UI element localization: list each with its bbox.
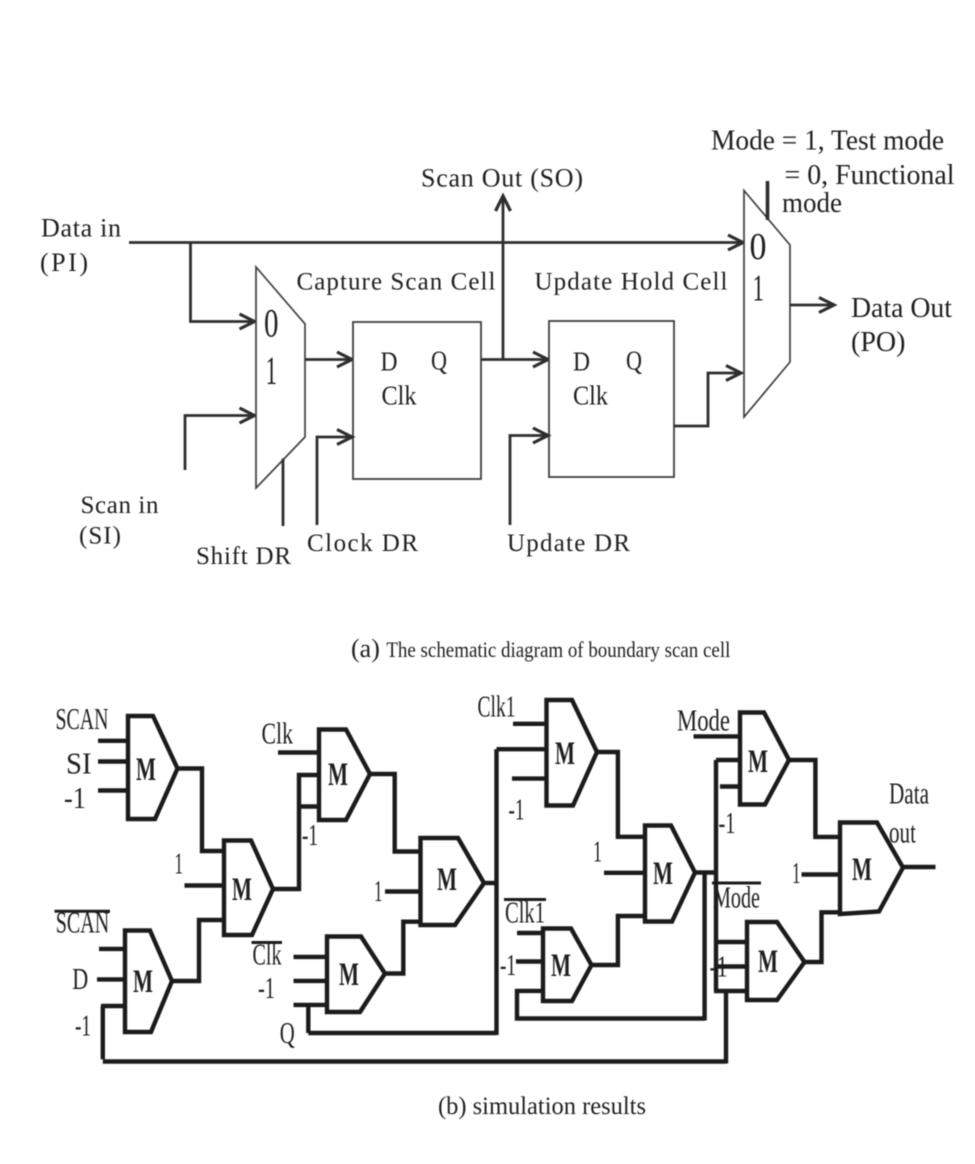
wire junction vertical M10in2 to M11in3 [714, 760, 718, 991]
svg-text:Mode: Mode [677, 703, 730, 738]
wire M6 output to M5 input3 [383, 922, 422, 974]
wire M7 input3 -1 stub [512, 776, 548, 780]
svg-text:0: 0 [264, 301, 279, 346]
wire M8 output to junction vertical [693, 870, 716, 874]
wire M11 input2 -1 stub [714, 964, 749, 968]
svg-text:Update Hold Cell: Update Hold Cell [535, 269, 728, 296]
wire Update DR elbow into FF2 [510, 436, 547, 526]
wire M3 input2 stub [185, 883, 227, 887]
svg-text:Clk1: Clk1 [478, 689, 516, 724]
wire M4 output to M5 input1 [368, 774, 422, 852]
wire M12 output Data out [901, 865, 936, 869]
label "Clk" overline (M6) [252, 941, 283, 944]
wire Scan Out vertical from Q node [502, 197, 505, 360]
wire M9 input2 -1 stub [516, 959, 545, 963]
wire Clock DR elbow into FF1 [317, 437, 351, 525]
svg-text:Mode: Mode [713, 880, 760, 915]
wire M10 output to M12 input1 [787, 760, 842, 837]
svg-text:-1: -1 [258, 970, 275, 1005]
svg-text:Clk1: Clk1 [505, 895, 545, 930]
wire M10 input3 -1 stub [720, 784, 742, 788]
mux M6 [327, 937, 385, 1013]
svg-text:D: D [381, 347, 398, 377]
svg-text:M: M [232, 872, 252, 908]
mux M12 [840, 823, 903, 915]
wire M11 output to M12 input3 [803, 912, 843, 962]
wire M4 input1 Clk stub [278, 750, 321, 754]
wire mux B output to Data Out [790, 304, 833, 307]
wire mux A output to FF1 D [305, 358, 351, 361]
wire M6 input1 Clkbar stub [294, 955, 330, 959]
svg-text:Clk: Clk [382, 381, 417, 411]
svg-text:Mode = 1, Test mode: Mode = 1, Test mode [711, 125, 944, 157]
svg-text:Shift DR: Shift DR [196, 543, 291, 570]
wire M1 output to M3 input1 [175, 769, 226, 852]
wire main data line from Data in to right mux input 0 [129, 241, 742, 244]
mux M11 [747, 922, 805, 1000]
svg-text:-1: -1 [719, 805, 736, 840]
mux M3 [224, 841, 273, 936]
arrowhead into FF1 D [337, 352, 352, 367]
wire M2 output to M3 input3 [170, 920, 226, 981]
mux M2 [125, 931, 172, 1033]
wire M1 input2 SI stub [98, 759, 128, 763]
wire mode select stub on mux B [766, 181, 770, 220]
svg-text:1: 1 [175, 846, 184, 881]
wire rail up to M11 input3 [724, 991, 728, 1064]
svg-text:Q: Q [626, 346, 642, 376]
svg-text:Update DR: Update DR [507, 530, 630, 557]
wire M4 input3 -1 stub [300, 804, 321, 808]
wire M12 input2 stub [802, 872, 843, 876]
wire M11 input3 stub [714, 989, 749, 993]
svg-text:Data Out: Data Out [851, 293, 952, 324]
mux M10 [740, 713, 789, 805]
wire M7 output to M8 input1 [595, 752, 647, 837]
wire Scan in elbow to left mux input 1 [185, 416, 254, 471]
wire Q feedback vertical up to M7 input2 [494, 749, 498, 1035]
arrowhead Data Out [819, 298, 834, 313]
svg-text:1: 1 [753, 268, 765, 310]
wire M3 output to M4 input2 [271, 775, 321, 889]
svg-text:(a) The schematic diagram of b: (a) The schematic diagram of boundary sc… [351, 634, 730, 663]
wire M1 input3 -1 stub [98, 788, 128, 792]
mux B (output select trapezoid) [744, 191, 790, 418]
svg-text:1: 1 [374, 873, 383, 908]
wire Q feedback horizontal [308, 1031, 496, 1035]
label "Mode" overline (M11) [712, 882, 761, 885]
wire M2 input3 -1 stub [101, 1004, 125, 1008]
svg-text:-1: -1 [509, 792, 525, 827]
svg-text:M: M [555, 736, 575, 772]
svg-text:Clk: Clk [253, 937, 282, 972]
flip-flop FF1 box [353, 322, 481, 479]
wire M9 input1 stub [517, 931, 545, 935]
svg-text:Q: Q [431, 346, 447, 376]
wire M2 -1 node down to bottom rail [101, 1006, 105, 1059]
wire M11 input1 stub [716, 940, 749, 944]
svg-text:M: M [758, 944, 778, 980]
svg-text:Clock DR: Clock DR [307, 530, 418, 557]
label "Clk1" overline (M9) [504, 898, 546, 901]
wire M9 input3 elbow to mid feedback [517, 991, 705, 1019]
wire FF2 Q elbow to right mux input 1 [674, 373, 740, 426]
wire M9 output to M8 input3 [590, 916, 648, 965]
svg-text:1: 1 [593, 834, 602, 869]
svg-text:D: D [573, 347, 590, 377]
svg-text:(PI): (PI) [40, 248, 88, 277]
svg-text:0: 0 [750, 226, 767, 268]
svg-text:out: out [889, 815, 916, 850]
mux A (input select trapezoid) [256, 267, 305, 488]
svg-text:Capture Scan Cell: Capture Scan Cell [297, 269, 496, 296]
svg-text:1: 1 [792, 855, 801, 890]
flip-flop FF2 box [549, 321, 674, 477]
svg-text:(PO): (PO) [851, 327, 905, 358]
arrowhead into right mux input 0 [728, 235, 743, 250]
svg-text:M: M [551, 948, 571, 984]
svg-text:-1: -1 [302, 817, 318, 852]
svg-text:SI: SI [66, 746, 92, 781]
svg-text:D: D [72, 961, 88, 996]
wire M2 input2 D stub [97, 977, 125, 981]
arrowhead into right mux input 1 [726, 366, 741, 381]
svg-text:Data: Data [889, 776, 929, 811]
wire M6 input3 Q stub [294, 1003, 330, 1007]
mux M8 [645, 826, 695, 922]
svg-text:-1: -1 [710, 949, 728, 984]
svg-text:M: M [328, 757, 348, 793]
arrowhead into FF2 D [533, 352, 548, 367]
wire into M10 input2 [716, 758, 742, 762]
wire M2 input1 SCANbar stub [99, 947, 125, 951]
label "SCAN" overline (M2) [55, 910, 111, 913]
wire M7 input1 Clk1 stub [513, 722, 548, 726]
svg-text:-1: -1 [75, 1008, 91, 1043]
wire branch from data line down to left mux input 0 [191, 243, 254, 322]
svg-text:M: M [653, 856, 673, 892]
wire M10 input1 Mode stub [694, 734, 743, 738]
wire M5 output joining Q vertical [482, 881, 497, 885]
svg-text:(SI): (SI) [79, 523, 121, 550]
svg-text:M: M [852, 852, 872, 888]
svg-text:M: M [437, 862, 457, 898]
svg-text:-1: -1 [500, 947, 516, 982]
svg-text:M: M [133, 964, 153, 1000]
svg-text:SCAN: SCAN [56, 905, 109, 940]
svg-text:Scan in: Scan in [81, 492, 160, 519]
wire Q node down to Q feedback line [306, 1005, 310, 1033]
svg-text:M: M [136, 752, 156, 788]
svg-text:Clk: Clk [573, 381, 608, 411]
svg-text:Clk: Clk [262, 716, 294, 751]
svg-text:Q: Q [280, 1015, 295, 1050]
arrowhead Scan Out up [496, 196, 511, 211]
wire M1 input1 SCAN stub [98, 739, 128, 743]
arrowhead into left mux input 1 [240, 408, 255, 423]
svg-text:M: M [748, 744, 768, 780]
svg-text:SCAN: SCAN [56, 701, 109, 736]
mux M1 [128, 716, 178, 819]
arrowhead into left mux input 0 [240, 314, 255, 329]
svg-text:M: M [339, 957, 359, 993]
wire M6 input2 -1 stub [294, 979, 330, 983]
mux M4 [319, 730, 370, 821]
svg-text:1: 1 [266, 348, 278, 393]
wire M5 input2 stub [385, 889, 422, 893]
arrowhead into FF1 clock [337, 430, 352, 445]
wire bottom feedback rail [103, 1059, 726, 1063]
arrowhead into FF2 clock [533, 428, 548, 443]
mux M5 [421, 838, 485, 925]
svg-text:Scan Out (SO): Scan Out (SO) [421, 164, 583, 193]
wire Shift DR to mux A bottom edge [282, 459, 285, 527]
svg-text:-1: -1 [64, 780, 86, 815]
mux M9 [543, 929, 592, 1002]
wire FF1 Q to FF2 D [481, 358, 547, 361]
svg-text:(b) simulation results: (b) simulation results [438, 1093, 646, 1120]
wire mid feedback up to M8 output node [702, 873, 706, 1021]
wire M8 input2 stub [604, 871, 647, 875]
mux M7 [547, 700, 598, 806]
wire Q feedback into M7 input2 [497, 747, 549, 751]
svg-text:Data in: Data in [41, 214, 121, 243]
svg-text:mode: mode [782, 187, 842, 219]
